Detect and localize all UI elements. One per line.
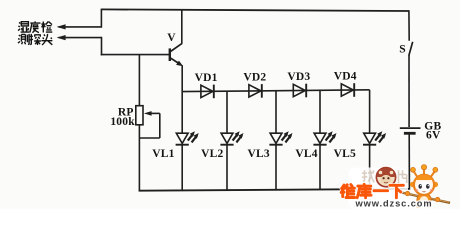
wire bottom rail	[139, 189, 410, 191]
diode VD2	[243, 72, 266, 98]
svg-text:VL3: VL3	[247, 148, 269, 160]
wire base line	[101, 54, 170, 56]
transistor V (NPN)	[167, 32, 183, 66]
wire VL3 cathode lead	[275, 145, 277, 190]
diode VD3	[287, 71, 310, 97]
wire collector to top rail	[181, 9, 183, 44]
wire emitter down / VL1 column upper	[181, 65, 183, 133]
svg-text:VL5: VL5	[334, 148, 356, 160]
svg-text:VL4: VL4	[295, 148, 317, 160]
svg-text:6V: 6V	[426, 129, 441, 141]
wire probe upper lead vertical	[100, 9, 102, 28]
wire battery to bottom rail	[408, 133, 410, 189]
probe label line1 "湿度检" (hand-drawn strokes)	[18, 21, 52, 32]
watermark ghost text	[362, 170, 407, 183]
wire RP bottom lead	[138, 125, 140, 191]
wire VL5 cathode lead	[369, 145, 371, 190]
battery GB 6V	[400, 120, 442, 141]
svg-text:www.dzsc.com: www.dzsc.com	[354, 199, 432, 209]
switch S	[399, 42, 413, 56]
wire VL1 cathode lead	[181, 145, 183, 191]
svg-text:100k: 100k	[110, 116, 135, 128]
svg-text:VL1: VL1	[152, 148, 174, 160]
wire top supply rail	[101, 9, 409, 11]
svg-text:VL2: VL2	[201, 148, 223, 160]
wire VL5 anode branch	[369, 90, 371, 134]
wire VL3 anode branch	[275, 91, 277, 134]
wire diode rail	[182, 90, 369, 92]
watermark logo circle	[376, 168, 395, 187]
watermark background	[349, 168, 409, 210]
LED VL5	[334, 131, 386, 160]
svg-text:VD4: VD4	[334, 71, 357, 83]
watermark mascot	[397, 165, 451, 208]
wire right rail upper	[408, 10, 410, 41]
wire switch to battery	[408, 55, 410, 127]
probe electrode arrow lower	[57, 35, 102, 40]
wire RP top lead	[138, 55, 140, 107]
diode VD1	[195, 72, 218, 98]
wire VL4 cathode lead	[319, 145, 321, 190]
svg-text:VD3: VD3	[287, 71, 310, 83]
LED VL4	[295, 131, 336, 160]
watermark orange text 维库一下	[341, 184, 403, 197]
wire VL2 anode branch	[226, 91, 228, 133]
diode VD4	[334, 71, 357, 97]
svg-text:S: S	[399, 43, 406, 55]
svg-text:V: V	[167, 32, 176, 44]
svg-text:VD2: VD2	[243, 72, 266, 84]
svg-text:VD1: VD1	[195, 72, 218, 84]
LED VL1	[152, 131, 198, 160]
LED VL3	[247, 131, 292, 160]
LED VL2	[201, 131, 243, 160]
probe label line2 "测探头" (hand-drawn strokes)	[18, 34, 52, 45]
probe electrode arrow upper	[57, 24, 102, 29]
resistor RP 100k (potentiometer)	[110, 106, 159, 138]
wire probe lower lead vertical	[101, 37, 103, 56]
wire VL4 anode branch	[319, 90, 321, 133]
wire VL2 cathode lead	[226, 145, 228, 190]
